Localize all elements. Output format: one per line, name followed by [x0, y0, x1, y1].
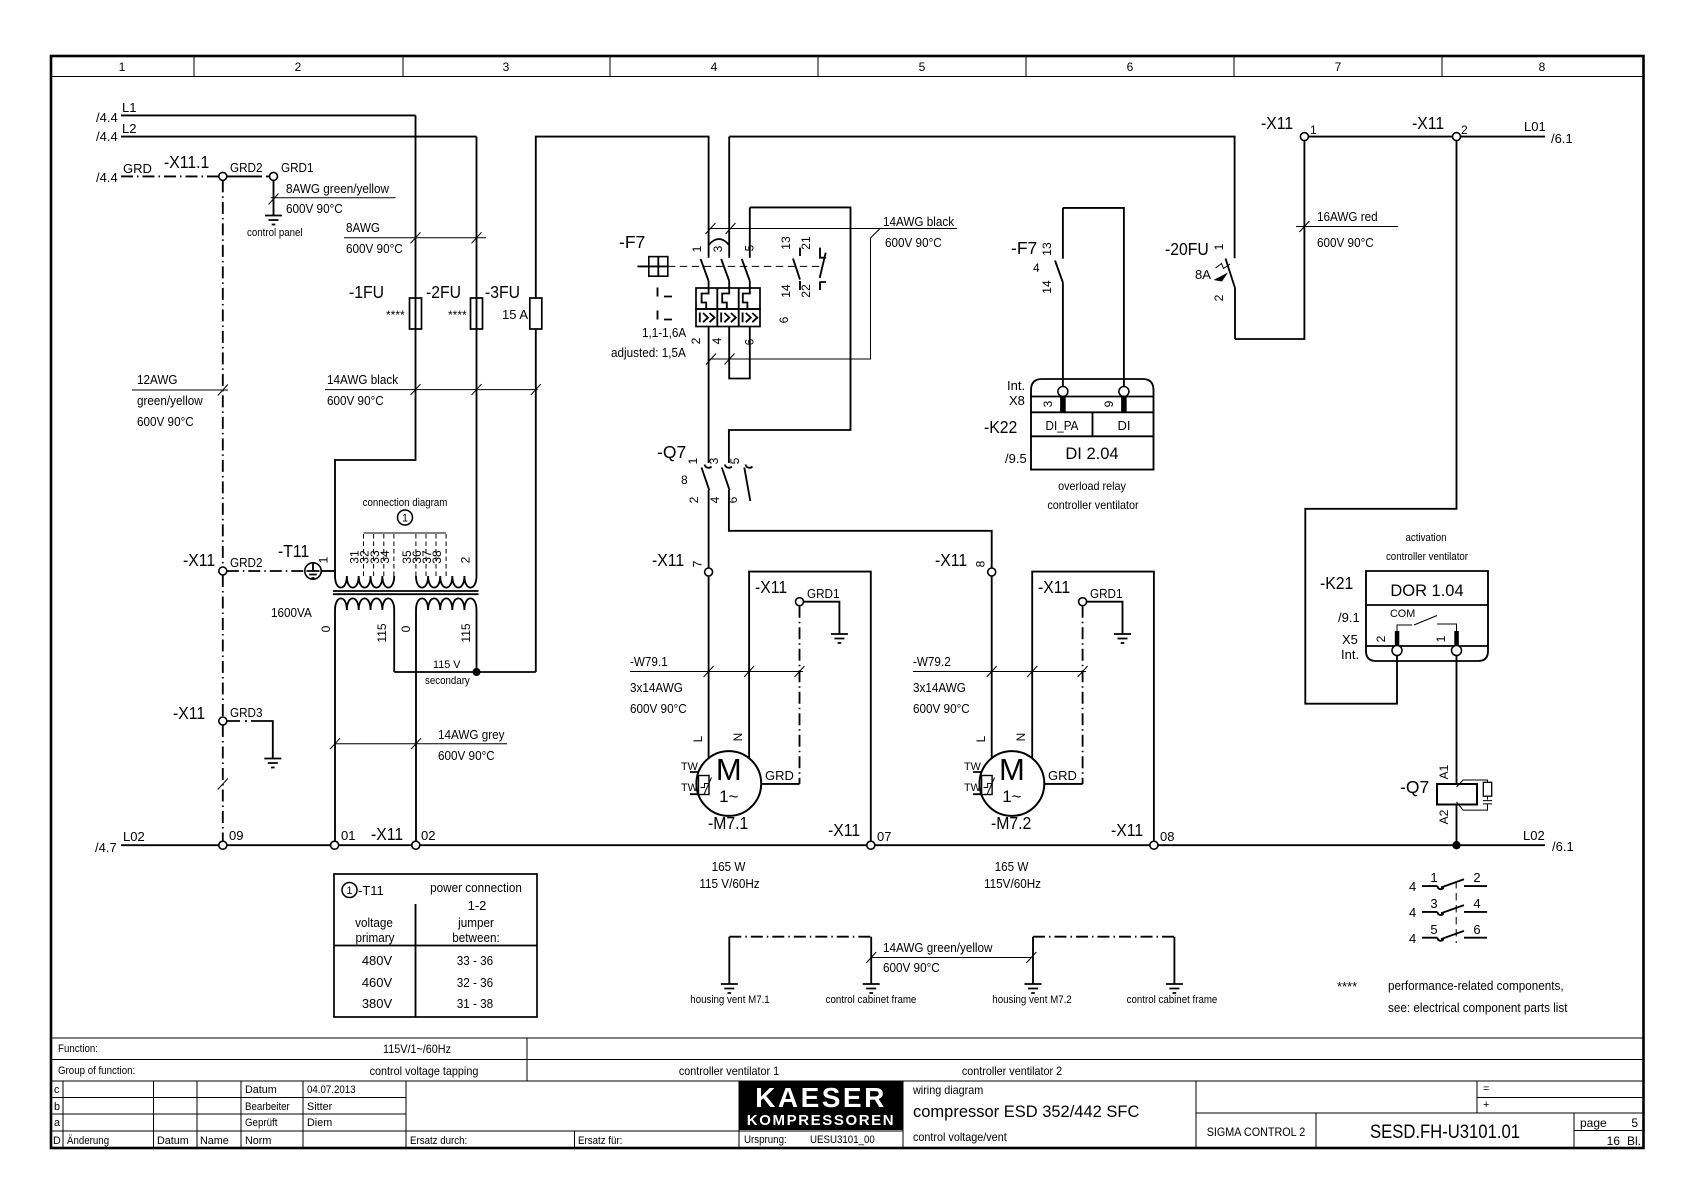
wire X11:1 to X11:2 [1308, 136, 1452, 138]
svg-text:/4.4: /4.4 [96, 129, 118, 144]
svg-text:TW: TW [681, 782, 699, 794]
svg-text:see: electrical component part: see: electrical component parts list [1388, 1000, 1568, 1015]
svg-text:TW: TW [964, 782, 982, 794]
svg-text:secondary: secondary [425, 675, 470, 687]
svg-text:600V 90°C: 600V 90°C [913, 701, 970, 716]
svg-text:13: 13 [1040, 242, 1054, 256]
svg-text:4: 4 [1409, 931, 1416, 946]
svg-text:6: 6 [1127, 60, 1134, 74]
wire K22 pin9 bracket [1063, 208, 1124, 387]
wire N path to rail [749, 572, 871, 842]
svg-text:Ersatz durch:: Ersatz durch: [410, 1135, 467, 1147]
svg-text:12AWG: 12AWG [137, 372, 178, 387]
svg-text:1: 1 [1310, 123, 1317, 137]
svg-text:16AWG red: 16AWG red [1317, 209, 1378, 224]
svg-text:control cabinet frame: control cabinet frame [1127, 994, 1218, 1006]
svg-text:-T11: -T11 [278, 541, 309, 561]
svg-text:L: L [974, 735, 988, 742]
wire -2FU to transformer terminal 2 [476, 329, 478, 576]
svg-text:4: 4 [711, 60, 718, 74]
wire secondary 0 to X11:01 [334, 610, 336, 841]
breaker -F7 bridge arc poles 1-3 [709, 239, 730, 245]
terminal GRD1 [270, 160, 314, 180]
svg-text:-1FU: -1FU [349, 282, 384, 302]
motor M7.2 block [973, 572, 1154, 842]
svg-text:2: 2 [295, 60, 302, 74]
svg-text:1: 1 [402, 513, 408, 525]
breaker -F7 thermal boxes [696, 288, 760, 327]
wire GRD3 to ground [227, 721, 273, 758]
svg-text:600V 90°C: 600V 90°C [327, 393, 384, 408]
svg-text:0: 0 [319, 625, 333, 632]
svg-text:8: 8 [681, 473, 688, 487]
svg-text:Datum: Datum [157, 1135, 189, 1147]
svg-text:control voltage tapping: control voltage tapping [370, 1064, 479, 1078]
label 16AWG red [1296, 209, 1398, 250]
svg-text:TW: TW [681, 761, 699, 773]
label 8AWG 600V [344, 220, 486, 256]
svg-text:controller ventilator: controller ventilator [1386, 551, 1468, 563]
svg-text:600V 90°C: 600V 90°C [1317, 235, 1374, 250]
svg-text:-Q7: -Q7 [1400, 777, 1429, 797]
svg-text:L02: L02 [1523, 828, 1545, 843]
svg-text:3x14AWG: 3x14AWG [913, 680, 966, 695]
wire -3FU bottom to 115V node [535, 329, 537, 672]
svg-text:adjusted: 1,5A: adjusted: 1,5A [611, 345, 686, 360]
svg-text:control cabinet frame: control cabinet frame [826, 994, 917, 1006]
svg-text:GRD1: GRD1 [1090, 586, 1123, 601]
wire -3FU top to F7 pole1 [536, 137, 709, 298]
transformer secondary windings [319, 598, 477, 642]
svg-text:600V 90°C: 600V 90°C [137, 414, 194, 429]
svg-text:5: 5 [728, 457, 742, 464]
svg-text:wiring diagram: wiring diagram [912, 1083, 983, 1097]
label -W79.2 [913, 654, 1088, 716]
svg-text:2: 2 [459, 556, 473, 563]
svg-text:Ursprung:: Ursprung: [744, 1134, 787, 1146]
terminal -X11 01 [331, 828, 356, 849]
svg-text:L: L [691, 735, 705, 742]
svg-text:Bl.: Bl. [1627, 1134, 1641, 1148]
svg-text:+: + [1483, 1099, 1489, 1111]
svg-text:housing vent M7.2: housing vent M7.2 [992, 994, 1071, 1006]
fuse -3FU [485, 282, 542, 329]
svg-text:21: 21 [799, 236, 813, 250]
svg-text:DI_PA: DI_PA [1046, 418, 1079, 433]
svg-text:2: 2 [1473, 870, 1480, 885]
svg-text:04.07.2013: 04.07.2013 [307, 1084, 356, 1096]
svg-text:600V 90°C: 600V 90°C [286, 201, 343, 216]
svg-text:02: 02 [421, 828, 435, 843]
T11 power connection table [334, 874, 537, 1017]
svg-text:5: 5 [919, 60, 926, 74]
wire F7 pole2 out to Q7 pole1 [708, 327, 710, 464]
coil snubber RC [1457, 780, 1493, 810]
svg-text:compressor ESD 352/442 SFC: compressor ESD 352/442 SFC [913, 1102, 1139, 1121]
svg-text:2: 2 [689, 337, 703, 344]
svg-text:600V 90°C: 600V 90°C [885, 235, 942, 250]
svg-text:Geprüft: Geprüft [245, 1117, 277, 1129]
wire L2 drop to -2FU [476, 137, 478, 298]
svg-text:14: 14 [1040, 280, 1054, 294]
contactor -Q7 pole 5 (spare) [726, 457, 752, 503]
wire secondary 0 right to X11:02 [415, 610, 417, 841]
svg-text:L1: L1 [122, 100, 136, 115]
svg-text:14AWG grey: 14AWG grey [438, 727, 505, 742]
wire L to motor [708, 576, 710, 758]
svg-text:A1: A1 [1437, 764, 1451, 779]
wire secondary 115 left to node [393, 610, 395, 672]
svg-text:1: 1 [1430, 870, 1437, 885]
svg-text:performance-related components: performance-related components, [1388, 978, 1564, 993]
svg-text:page: page [1580, 1116, 1607, 1130]
svg-text:16: 16 [1607, 1134, 1621, 1148]
svg-text:01: 01 [341, 828, 355, 843]
fuse -1FU [349, 282, 422, 329]
svg-text:M: M [999, 752, 1025, 787]
svg-text:N: N [1014, 733, 1028, 742]
wire L01 tail [1461, 119, 1573, 146]
svg-text:UESU3101_00: UESU3101_00 [810, 1134, 875, 1146]
title texts [912, 1083, 1641, 1148]
svg-text:2: 2 [1461, 123, 1468, 137]
thermal switch TW [690, 772, 712, 795]
module -K22 [1031, 379, 1154, 470]
fuse -2FU [426, 282, 483, 329]
fuse-switch -20FU [1165, 239, 1235, 339]
contactor -Q7 pole 1 [681, 457, 712, 568]
svg-text:6: 6 [777, 316, 791, 323]
svg-text:X5: X5 [1342, 632, 1358, 647]
svg-text:14AWG green/yellow: 14AWG green/yellow [883, 940, 993, 955]
svg-text:GRD1: GRD1 [281, 160, 314, 175]
svg-text:-X11: -X11 [1412, 113, 1444, 133]
wire L1 [96, 100, 416, 125]
label 14AWG green/yellow (bonding) [866, 940, 1036, 975]
svg-text:-X11: -X11 [755, 577, 787, 597]
svg-text:4: 4 [708, 496, 722, 503]
svg-text:GRD2: GRD2 [230, 160, 263, 175]
column header band [51, 56, 1644, 77]
svg-text:GRD: GRD [123, 161, 152, 176]
svg-text:1,1-1,6A: 1,1-1,6A [642, 325, 686, 340]
label 14AWG black 600V (fuse wires) [325, 372, 541, 408]
svg-text:Group of function:: Group of function: [58, 1065, 135, 1077]
svg-text:22: 22 [799, 284, 813, 298]
wire GRD dash-dot vertical [218, 180, 228, 841]
svg-text:14AWG black: 14AWG black [327, 372, 399, 387]
svg-text:4: 4 [1033, 261, 1040, 275]
wire F7 poles 4-6 bridge U [729, 327, 750, 379]
terminal GRD1 [796, 598, 804, 606]
wire 115V node [394, 671, 536, 673]
wire GRD [96, 161, 219, 185]
svg-text:N: N [731, 733, 745, 742]
svg-text:380V: 380V [362, 996, 393, 1011]
svg-text:6: 6 [1473, 922, 1480, 937]
svg-text:115 V: 115 V [433, 659, 461, 671]
svg-text:voltage: voltage [355, 915, 393, 930]
svg-text:3: 3 [711, 245, 725, 252]
svg-text:DI: DI [1118, 418, 1131, 433]
svg-text:1-2: 1-2 [468, 898, 487, 913]
T11 earth symbol [305, 563, 335, 579]
svg-text:Function:: Function: [58, 1043, 98, 1055]
svg-text:08: 08 [1160, 829, 1174, 844]
svg-text:09: 09 [229, 828, 243, 843]
svg-text:1~: 1~ [1002, 787, 1021, 806]
note performance-related components [1337, 978, 1568, 1015]
svg-text:A2: A2 [1437, 809, 1451, 824]
svg-text:-2FU: -2FU [426, 282, 461, 302]
svg-text:/6.1: /6.1 [1552, 839, 1574, 854]
svg-text:165 W: 165 W [712, 859, 746, 874]
svg-text:KOMPRESSOREN: KOMPRESSOREN [747, 1112, 895, 1129]
svg-text:GRD3: GRD3 [230, 705, 263, 720]
svg-text:14AWG black: 14AWG black [883, 214, 955, 229]
wire GRD dash-dot [799, 606, 801, 784]
svg-text:L2: L2 [122, 121, 136, 136]
transformer core bars [333, 591, 479, 594]
svg-text:9: 9 [1102, 400, 1116, 407]
ground GRD3 [264, 759, 281, 768]
wire coil A2 to rail [1456, 805, 1458, 846]
svg-text:COM: COM [1390, 608, 1415, 620]
svg-text:-X11: -X11 [935, 550, 967, 570]
svg-text:5: 5 [743, 244, 757, 251]
svg-text:07: 07 [877, 829, 891, 844]
svg-text:0: 0 [399, 625, 413, 632]
node L02 junction [1452, 841, 1460, 849]
svg-text:Sitter: Sitter [307, 1101, 333, 1113]
svg-text:primary: primary [356, 930, 395, 945]
svg-text:115: 115 [375, 623, 389, 642]
node 115V junction [473, 668, 481, 676]
motor M7.2 texts [964, 577, 1123, 891]
module -K22 labels [984, 378, 1139, 512]
svg-text:D: D [53, 1135, 61, 1147]
svg-text:38: 38 [430, 550, 444, 564]
svg-text:controller ventilator: controller ventilator [1047, 498, 1138, 512]
svg-text:KAESER: KAESER [755, 1082, 887, 1113]
svg-text:Datum: Datum [245, 1084, 277, 1096]
svg-text:control panel: control panel [247, 227, 303, 239]
wire F7 pole5 top feed [729, 207, 851, 463]
aux contact -F7 21-22 [799, 236, 826, 298]
svg-text:TW: TW [964, 761, 982, 773]
svg-text:=: = [1483, 1083, 1489, 1095]
KAESER logo [739, 1081, 903, 1130]
svg-text:GRD: GRD [765, 768, 794, 783]
svg-text:165 W: 165 W [995, 859, 1029, 874]
wire -1FU to transformer terminal 1 [335, 329, 416, 576]
svg-text:8AWG: 8AWG [346, 220, 380, 235]
svg-text:controller ventilator 2: controller ventilator 2 [962, 1064, 1063, 1078]
terminal -X11 07 [828, 820, 891, 849]
svg-text:1: 1 [317, 556, 331, 563]
svg-text:green/yellow: green/yellow [137, 393, 203, 408]
svg-text:between:: between: [452, 930, 500, 945]
svg-text:3x14AWG: 3x14AWG [630, 680, 683, 695]
svg-text:1~: 1~ [719, 787, 738, 806]
ground control panel [247, 216, 303, 240]
wire GRD2 to T11 earth [227, 570, 305, 572]
svg-text:8: 8 [1539, 60, 1546, 74]
svg-text:5: 5 [1430, 922, 1437, 937]
svg-text:GRD1: GRD1 [807, 586, 840, 601]
transformer taps 31-38 [348, 533, 447, 576]
svg-text:-20FU: -20FU [1165, 239, 1209, 259]
module -K21 labels [1320, 573, 1360, 662]
motor circle [696, 751, 761, 816]
svg-text:-K22: -K22 [984, 417, 1017, 437]
aux contact -F7 13-14 (K22 feed) [1011, 208, 1063, 387]
svg-text:600V 90°C: 600V 90°C [630, 701, 687, 716]
svg-text:34: 34 [378, 550, 392, 564]
terminal -X11 8 [935, 550, 996, 576]
rail L02 [95, 828, 1574, 855]
svg-text:power connection: power connection [430, 880, 522, 895]
svg-text:Int.: Int. [1007, 378, 1025, 393]
svg-text:b: b [54, 1101, 60, 1113]
terminal -X11 2 [1412, 113, 1468, 141]
breaker -F7 actuator box [637, 257, 667, 277]
breaker -F7 linkage dashed [668, 265, 820, 267]
svg-text:-T11: -T11 [358, 883, 384, 898]
contactor -Q7 auxiliary contacts [1409, 870, 1487, 946]
label 14AWG grey [330, 727, 507, 763]
svg-text:5: 5 [1631, 1116, 1638, 1130]
svg-text:1: 1 [686, 457, 700, 464]
module -K21 [1366, 532, 1488, 661]
wire K21 pin1 to coil A1 [1456, 655, 1458, 784]
breaker -F7 trip link marks [658, 288, 673, 320]
svg-text:4: 4 [1409, 879, 1416, 894]
terminal -X11 GRD2 [183, 550, 263, 575]
svg-text:****: **** [1337, 979, 1357, 994]
svg-text:Änderung: Änderung [67, 1135, 109, 1147]
svg-text:L02: L02 [123, 829, 145, 844]
terminal -X11 02 [371, 824, 435, 849]
svg-text:-X11: -X11 [173, 703, 205, 723]
label 12AWG green/yellow [132, 372, 228, 429]
svg-text:1600VA: 1600VA [271, 605, 312, 620]
wire X11:2 to K21 COM [1305, 141, 1456, 704]
svg-text:connection diagram: connection diagram [363, 497, 448, 509]
svg-text:480V: 480V [362, 953, 393, 968]
svg-text:-X11: -X11 [1038, 577, 1070, 597]
svg-text:115V/60Hz: 115V/60Hz [984, 876, 1041, 891]
svg-text:14: 14 [779, 284, 793, 298]
svg-text:33 - 36: 33 - 36 [457, 953, 493, 968]
svg-text:-K21: -K21 [1320, 573, 1353, 593]
svg-text:Bearbeiter: Bearbeiter [245, 1101, 290, 1113]
svg-text:-M7.2: -M7.2 [991, 813, 1031, 833]
label 8AWG green/yellow [271, 181, 396, 216]
svg-text:Diem: Diem [307, 1117, 332, 1129]
svg-text:Norm: Norm [245, 1135, 271, 1147]
svg-text:8: 8 [974, 560, 988, 567]
svg-text:****: **** [386, 308, 405, 322]
label 14AWG black (top) [706, 214, 958, 365]
svg-text:-W79.2: -W79.2 [913, 654, 951, 669]
svg-text:jumper: jumper [457, 915, 494, 930]
svg-text:4: 4 [1409, 905, 1416, 920]
svg-text:-3FU: -3FU [485, 282, 520, 302]
svg-text:/9.1: /9.1 [1338, 610, 1360, 625]
svg-text:1: 1 [1212, 243, 1226, 250]
label connection diagram [363, 497, 448, 525]
svg-text:-X11: -X11 [828, 820, 860, 840]
svg-text:-X11: -X11 [652, 550, 684, 570]
svg-text:-X11: -X11 [1261, 113, 1293, 133]
svg-text:4: 4 [1473, 896, 1480, 911]
wire GRD1 to ground [804, 602, 840, 634]
svg-text:7: 7 [1335, 60, 1342, 74]
svg-text:8AWG green/yellow: 8AWG green/yellow [286, 181, 390, 196]
breaker -F7 pole 3 contact [710, 137, 729, 345]
wire L2 [96, 121, 477, 144]
function / group-of-function table [51, 1038, 1644, 1081]
transformer -T11 primary winding [317, 556, 477, 587]
label -W79.1 [630, 654, 805, 716]
svg-text:housing vent M7.1: housing vent M7.1 [690, 994, 769, 1006]
svg-text:-F7: -F7 [619, 232, 645, 252]
svg-text:460V: 460V [362, 975, 393, 990]
svg-text:Int.: Int. [1341, 647, 1359, 662]
wire GRD2-GRD1 [227, 175, 270, 177]
svg-text:600V 90°C: 600V 90°C [346, 241, 403, 256]
aux contact -F7 13-14 [779, 236, 800, 298]
svg-text:L01: L01 [1524, 119, 1546, 134]
label 115 V secondary [425, 659, 470, 687]
wire GRD1 to ground [269, 180, 279, 215]
svg-text:15 A: 15 A [502, 307, 528, 322]
svg-text:115V/1~/60Hz: 115V/1~/60Hz [383, 1042, 451, 1056]
terminal -X11 09 [219, 828, 244, 849]
terminal -X11.1 GRD2 [164, 152, 263, 180]
svg-text:1: 1 [690, 245, 704, 252]
svg-text:/9.5: /9.5 [1005, 451, 1027, 466]
svg-text:-X11: -X11 [371, 824, 403, 844]
svg-text:GRD2: GRD2 [230, 555, 263, 570]
svg-text:8A: 8A [1195, 267, 1211, 282]
svg-text:M: M [716, 752, 742, 787]
motor M7.1 block [690, 572, 871, 842]
svg-text:controller ventilator 1: controller ventilator 1 [679, 1064, 780, 1078]
svg-text:overload relay: overload relay [1058, 479, 1126, 493]
svg-text:a: a [54, 1117, 60, 1129]
terminal -X11 1 [1261, 113, 1317, 141]
svg-text:control voltage/vent: control voltage/vent [913, 1130, 1007, 1144]
motor M7.1 texts [681, 577, 840, 891]
svg-text:SESD.FH-U3101.01: SESD.FH-U3101.01 [1370, 1122, 1520, 1143]
contactor coil -Q7 [1400, 764, 1477, 824]
housing vent M7.1 bonding [690, 937, 916, 1006]
svg-text:-X11: -X11 [183, 550, 215, 570]
svg-text:32 - 36: 32 - 36 [457, 975, 493, 990]
terminal -X11 08 [1111, 820, 1174, 849]
svg-text:-M7.1: -M7.1 [708, 813, 748, 833]
svg-text:DOR 1.04: DOR 1.04 [1390, 581, 1463, 600]
svg-text:SIGMA CONTROL 2: SIGMA CONTROL 2 [1207, 1125, 1306, 1139]
svg-text:-W79.1: -W79.1 [630, 654, 668, 669]
ground housing [831, 634, 848, 643]
svg-text:600V 90°C: 600V 90°C [438, 748, 495, 763]
svg-text:600V 90°C: 600V 90°C [883, 960, 940, 975]
svg-text:2: 2 [1374, 635, 1388, 642]
svg-text:3: 3 [503, 60, 510, 74]
